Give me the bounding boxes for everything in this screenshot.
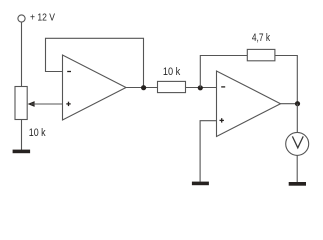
wire U1 output to resistor 10k — [126, 87, 158, 89]
op-amp U1 — [63, 55, 127, 120]
svg-text:10 k: 10 k — [29, 127, 46, 139]
op-amp U2 minus sign — [221, 86, 225, 88]
junction node at U2 output — [295, 101, 300, 106]
op-amp U2 plus sign — [220, 118, 224, 122]
svg-text:10 k: 10 k — [163, 66, 181, 78]
resistor 10 k body — [158, 81, 186, 92]
junction node at U2 - input — [198, 85, 203, 90]
wire wiper to op-amp U1 + input — [31, 103, 63, 105]
junction node at U1 output — [141, 85, 146, 90]
voltmeter V1 — [286, 132, 309, 155]
wire voltmeter to ground — [296, 155, 298, 182]
potentiometer R1 body — [15, 87, 27, 120]
ground (left) — [13, 150, 31, 154]
ground (right) — [289, 182, 306, 186]
op-amp U1 minus sign — [67, 71, 71, 73]
wire terminal to potentiometer — [21, 22, 23, 86]
ground (middle) — [192, 182, 209, 186]
op-amp U2 — [217, 71, 281, 137]
wire U2 + input to ground — [200, 121, 216, 182]
wire node to voltmeter — [296, 104, 298, 133]
feedback wire loop U1 (output to - input) — [46, 38, 144, 87]
wire potentiometer to ground — [21, 120, 23, 151]
potentiometer wiper arrow — [28, 101, 35, 107]
node +12V terminal — [18, 15, 25, 22]
resistor 4,7 k body — [247, 49, 275, 60]
op-amp U1 plus sign — [66, 102, 70, 106]
svg-text:4,7 k: 4,7 k — [252, 32, 271, 44]
voltmeter V glyph — [292, 136, 303, 147]
svg-text:+ 12 V: + 12 V — [30, 13, 55, 24]
feedback wire 4,7k to output node — [275, 56, 297, 104]
wire U2 output to node — [281, 103, 298, 105]
feedback branch wire up from node — [200, 56, 247, 88]
wire resistor to op-amp U2 - input — [186, 87, 217, 89]
